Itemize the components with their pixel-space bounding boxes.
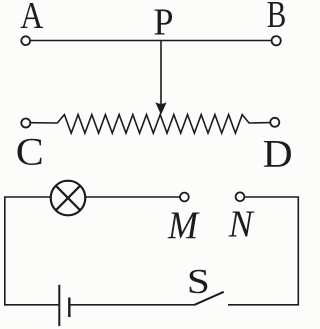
svg-text:M: M bbox=[167, 204, 200, 247]
svg-text:A: A bbox=[20, 0, 43, 37]
svg-text:N: N bbox=[228, 204, 255, 246]
svg-text:D: D bbox=[263, 133, 293, 176]
svg-text:C: C bbox=[16, 131, 44, 174]
svg-text:P: P bbox=[154, 2, 174, 44]
svg-text:S: S bbox=[187, 262, 210, 301]
svg-text:B: B bbox=[267, 0, 287, 36]
